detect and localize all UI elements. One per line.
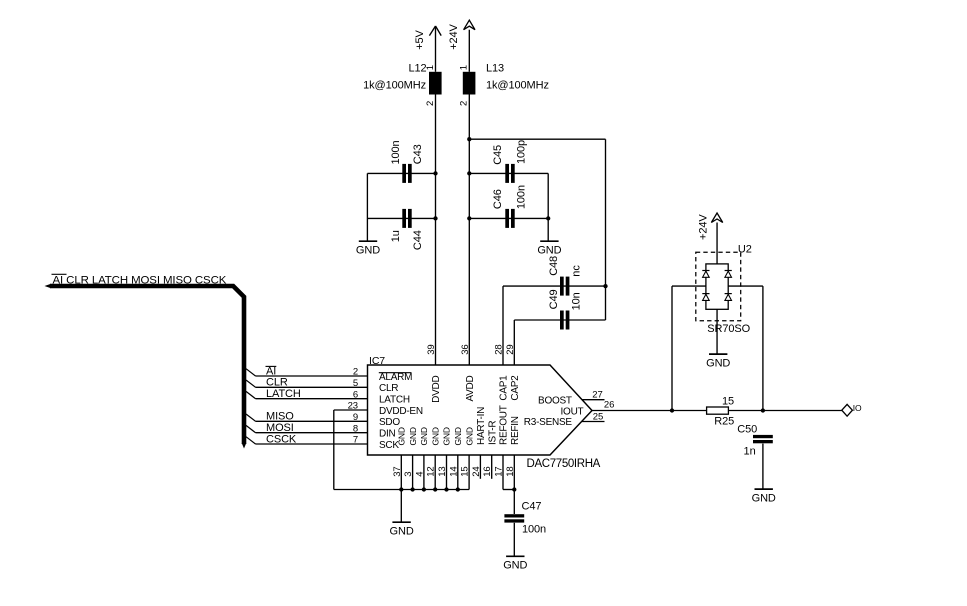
junction C43-DVDD	[433, 171, 437, 175]
pin number 24	[471, 466, 482, 476]
inductor L13	[459, 63, 549, 106]
svg-text:37: 37	[392, 466, 403, 476]
wire right vertical (24V branch down)	[605, 139, 607, 320]
svg-text:16: 16	[482, 466, 493, 476]
svg-text:IO: IO	[853, 403, 862, 413]
wire CAP1 pin 28	[502, 286, 504, 365]
diode array U2 body	[706, 264, 728, 309]
pin number 36	[460, 344, 471, 354]
svg-text:24: 24	[471, 466, 482, 476]
svg-text:BOOST: BOOST	[538, 395, 572, 406]
svg-text:2: 2	[459, 101, 470, 106]
ground GND (C47)	[503, 556, 527, 571]
svg-text:CAP2: CAP2	[510, 375, 521, 401]
ground GND (IC7)	[390, 522, 414, 537]
svg-text:29: 29	[505, 344, 516, 354]
pin name IOUT	[561, 406, 584, 417]
svg-text:28: 28	[494, 344, 505, 354]
svg-text:CAP1: CAP1	[499, 375, 510, 401]
svg-text:1: 1	[425, 65, 436, 70]
pin number 9	[353, 412, 358, 423]
wire IOUT to R25	[592, 410, 707, 412]
svg-text:6: 6	[353, 389, 358, 400]
pin name GND	[419, 427, 429, 445]
wire BOOST pin 27 stub	[582, 399, 604, 401]
wire right gnd column	[547, 173, 549, 241]
pin name GND	[397, 427, 407, 445]
svg-text:GND: GND	[464, 427, 474, 445]
resistor R25	[707, 395, 735, 427]
svg-text:LATCH: LATCH	[379, 395, 410, 406]
svg-text:100p: 100p	[516, 140, 528, 164]
junction gnd bus	[422, 487, 426, 491]
capacitor C43	[390, 140, 424, 182]
wire IC7 pin 12	[434, 455, 436, 490]
pin name REFOUT	[499, 405, 510, 445]
svg-text:3: 3	[403, 472, 414, 477]
pin name R3-SENSE	[524, 417, 573, 428]
svg-text:GND: GND	[453, 427, 463, 445]
junction IOUT-U2 left	[670, 408, 674, 412]
wire +24V top branch	[469, 138, 605, 140]
diode array U2 dashed outline	[696, 243, 752, 335]
bus label	[52, 274, 227, 286]
pin number 29	[505, 344, 516, 354]
svg-text:C49: C49	[548, 290, 560, 310]
pin name REFIN	[510, 416, 521, 445]
svg-text:AI CLR LATCH MOSI MISO CSCK: AI CLR LATCH MOSI MISO CSCK	[53, 274, 227, 286]
wire IC7 pin 4	[423, 455, 425, 490]
svg-text:SR70SO: SR70SO	[707, 323, 750, 335]
svg-text:7: 7	[353, 435, 358, 446]
bus entry CLR	[246, 380, 256, 387]
svg-text:C46: C46	[492, 189, 504, 209]
svg-text:GND: GND	[408, 427, 418, 445]
svg-text:R25: R25	[714, 416, 734, 428]
svg-text:L13: L13	[486, 63, 504, 75]
svg-text:DAC7750IRHA: DAC7750IRHA	[527, 458, 601, 470]
junction C44-DVDD	[433, 216, 437, 220]
svg-text:100n: 100n	[390, 140, 402, 164]
svg-text:REFOUT: REFOUT	[499, 405, 510, 445]
wire C50 to gnd	[762, 444, 764, 490]
svg-text:1k@100MHz: 1k@100MHz	[363, 80, 426, 92]
svg-text:HART-IN: HART-IN	[476, 407, 487, 445]
pin number 26	[604, 400, 614, 411]
junction C46-gnd	[546, 216, 550, 220]
ground GND (C43 C44)	[356, 241, 380, 256]
wire DVDD-EN pin 23 horizontal	[334, 409, 368, 411]
pin number 14	[448, 466, 459, 476]
wire C48 row	[503, 285, 606, 287]
diode D4 (U2 lower-right)	[725, 294, 732, 301]
svg-text:U2: U2	[738, 243, 752, 255]
pin name HART-IN	[476, 407, 487, 445]
bus entry MISO	[246, 414, 256, 421]
pin number 15	[460, 466, 471, 476]
svg-text:GND: GND	[752, 493, 776, 505]
svg-text:GND: GND	[537, 245, 561, 257]
pin number 6	[353, 389, 358, 400]
junction C48 right	[603, 284, 607, 288]
junction gnd bus	[399, 487, 403, 491]
svg-text:10n: 10n	[571, 292, 583, 310]
svg-text:15: 15	[460, 466, 471, 476]
pin number 37	[392, 466, 403, 476]
pin name ALARM	[379, 372, 412, 383]
wire U2 left tap	[672, 286, 706, 410]
svg-text:MOSI: MOSI	[266, 422, 294, 434]
pin name DIN	[379, 429, 396, 440]
op-amp IC7 outline	[368, 355, 593, 455]
pin number 12	[426, 466, 437, 476]
capacitor C48	[548, 256, 583, 296]
svg-text:1u: 1u	[390, 230, 402, 242]
svg-text:DVDD-EN: DVDD-EN	[379, 406, 423, 417]
svg-text:26: 26	[604, 400, 614, 411]
ground GND (C45 C46)	[537, 241, 561, 256]
bus entry CSCK	[246, 437, 256, 444]
bus entry LATCH	[246, 391, 256, 398]
wire IC7 pin 16 stub	[491, 455, 493, 479]
diode D2 (U2 upper-right)	[725, 271, 732, 278]
net label MOSI	[266, 422, 294, 434]
svg-text:AI: AI	[266, 365, 276, 377]
wire CSCK to IC7	[256, 443, 368, 445]
svg-text:nc: nc	[571, 265, 583, 277]
svg-text:L12: L12	[408, 63, 426, 75]
wire C43 row	[367, 172, 435, 174]
svg-text:5: 5	[353, 378, 358, 389]
pin name GND	[442, 427, 452, 445]
junction gnd bus	[456, 487, 460, 491]
capacitor C45	[492, 140, 528, 183]
pin number 16	[482, 466, 493, 476]
wire +24V to U2	[716, 223, 718, 264]
pin number 13	[437, 466, 448, 476]
svg-text:+24V: +24V	[448, 23, 460, 49]
bus entry MOSI	[246, 425, 256, 432]
wire C49 row	[514, 319, 605, 321]
wire U2 to gnd	[716, 309, 718, 354]
svg-text:R3-SENSE: R3-SENSE	[524, 417, 573, 428]
wire DVDD-EN pin 23 vertical	[333, 410, 335, 490]
wire U2 right tap	[728, 286, 763, 410]
net label LATCH	[266, 388, 301, 400]
svg-text:18: 18	[505, 466, 516, 476]
wire R3-SENSE pin 25 stub	[582, 421, 605, 423]
net label CLR	[266, 377, 288, 389]
svg-text:GND: GND	[706, 358, 730, 370]
ground GND (U2)	[706, 354, 730, 369]
wire R25 to IO	[728, 410, 841, 412]
pin name DVDD	[431, 375, 442, 402]
svg-text:1: 1	[459, 65, 470, 70]
wire IC7 pin 37	[400, 455, 402, 490]
svg-text:IOUT: IOUT	[561, 406, 584, 417]
bus entry AI	[246, 369, 256, 376]
wire AI to IC7	[256, 375, 368, 377]
svg-text:IST-R: IST-R	[487, 421, 498, 445]
wire gnd drop	[400, 490, 402, 523]
wire C47 to gnd	[513, 523, 515, 557]
wire CAP2 pin 29	[513, 320, 515, 365]
power +24V symbol	[448, 20, 475, 50]
pin number 2	[353, 367, 358, 378]
svg-text:IC7: IC7	[369, 355, 385, 367]
svg-text:13: 13	[437, 466, 448, 476]
svg-text:ALARM: ALARM	[379, 372, 412, 383]
wire L13 to AVDD pin 36	[468, 95, 470, 366]
svg-text:CLR: CLR	[379, 383, 398, 394]
wire IC7 pin 14	[457, 455, 459, 490]
svg-text:DVDD: DVDD	[431, 375, 442, 402]
diode D3 (U2 lower-left)	[702, 294, 709, 301]
net label AI	[266, 365, 277, 377]
svg-text:1n: 1n	[744, 446, 756, 458]
svg-text:GND: GND	[503, 560, 527, 572]
wire MOSI to IC7	[256, 432, 368, 434]
junction REFIN	[512, 487, 516, 491]
wire CLR to IC7	[256, 386, 368, 388]
wire L12 to DVDD pin 39	[435, 95, 437, 366]
pin name BOOST	[538, 395, 572, 406]
svg-text:GND: GND	[390, 526, 414, 538]
wire IC7 pin 18	[513, 455, 515, 490]
wire +24V to L13 pin 1	[468, 30, 470, 72]
wire C45 row	[469, 172, 548, 174]
svg-text:GND: GND	[397, 427, 407, 445]
svg-text:2: 2	[353, 367, 358, 378]
svg-text:C47: C47	[522, 500, 542, 512]
svg-text:12: 12	[426, 466, 437, 476]
svg-text:8: 8	[353, 423, 358, 434]
svg-text:C45: C45	[492, 145, 504, 165]
junction gnd bus	[433, 487, 437, 491]
pin number 3	[403, 472, 414, 477]
wire gnd bus	[334, 489, 469, 491]
pin name DVDD-EN	[379, 406, 423, 417]
svg-text:GND: GND	[442, 427, 452, 445]
svg-text:39: 39	[426, 344, 437, 354]
svg-text:DIN: DIN	[379, 429, 396, 440]
node IO	[842, 403, 862, 416]
svg-text:+24V: +24V	[698, 214, 710, 240]
svg-text:AVDD: AVDD	[465, 375, 476, 401]
junction R25-C50	[761, 408, 765, 412]
svg-text:GND: GND	[419, 427, 429, 445]
svg-text:CLR: CLR	[266, 377, 288, 389]
pin name CAP2	[510, 375, 521, 401]
pin number 4	[414, 472, 425, 477]
pin number 28	[494, 344, 505, 354]
capacitor C49	[548, 290, 583, 330]
bus AI CLR LATCH MOSI MISO CSCK	[45, 284, 247, 449]
pin name LATCH	[379, 395, 410, 406]
inductor L12	[363, 63, 441, 106]
svg-text:36: 36	[460, 344, 471, 354]
svg-text:2: 2	[425, 101, 436, 106]
svg-text:MISO: MISO	[266, 411, 294, 423]
wire IC7 pin 24 stub	[479, 455, 481, 479]
wire LATCH to IC7	[256, 398, 368, 400]
pin name GND	[453, 427, 463, 445]
svg-text:C50: C50	[737, 423, 757, 435]
pin name GND	[464, 427, 474, 445]
svg-text:CSCK: CSCK	[266, 433, 297, 445]
junction C45-AVDD	[467, 171, 471, 175]
power +24V symbol (U2)	[698, 213, 723, 240]
ground GND (C50)	[752, 489, 776, 504]
svg-text:100n: 100n	[522, 523, 546, 535]
svg-text:GND: GND	[356, 245, 380, 257]
pin name GND	[408, 427, 418, 445]
svg-text:+5V: +5V	[414, 29, 426, 49]
net label CSCK	[266, 433, 297, 445]
pin number 7	[353, 435, 358, 446]
svg-text:27: 27	[592, 389, 602, 400]
svg-text:REFIN: REFIN	[510, 416, 521, 445]
svg-text:1k@100MHz: 1k@100MHz	[486, 80, 549, 92]
svg-text:25: 25	[593, 411, 603, 422]
pin number 27	[592, 389, 602, 400]
svg-text:SDO: SDO	[379, 417, 400, 428]
pin name SCK	[379, 440, 399, 451]
diode D1 (U2 upper-left)	[702, 271, 709, 278]
pin number 25	[593, 411, 603, 422]
junction gnd bus	[444, 487, 448, 491]
label DAC7750IRHA	[527, 458, 601, 470]
wire left gnd column	[366, 173, 368, 241]
svg-text:100n: 100n	[516, 185, 528, 209]
svg-text:C48: C48	[548, 256, 560, 276]
pin number 5	[353, 378, 358, 389]
svg-text:9: 9	[353, 412, 358, 423]
pin number 39	[426, 344, 437, 354]
capacitor C44	[390, 209, 424, 250]
capacitor C50	[737, 423, 772, 457]
wire MISO to IC7	[256, 420, 368, 422]
svg-text:4: 4	[414, 472, 425, 477]
wire IC7 pin 3	[412, 455, 414, 490]
svg-text:C44: C44	[412, 230, 424, 250]
pin number 23	[348, 401, 358, 412]
pin name GND	[430, 427, 440, 445]
pin number 17	[494, 466, 505, 476]
wire REFIN to C47	[513, 490, 515, 515]
junction gnd bus	[410, 487, 414, 491]
svg-text:C43: C43	[412, 144, 424, 164]
junction +24V branch	[467, 137, 471, 141]
pin name AVDD	[465, 375, 476, 401]
wire C44 row	[367, 217, 435, 219]
pin name IST-R	[487, 421, 498, 445]
capacitor C47	[504, 500, 546, 535]
svg-text:14: 14	[448, 466, 459, 476]
svg-text:15: 15	[722, 395, 734, 407]
svg-text:LATCH: LATCH	[266, 388, 301, 400]
wire C46 row	[469, 217, 548, 219]
junction C46-AVDD	[467, 216, 471, 220]
svg-text:17: 17	[494, 466, 505, 476]
pin name CLR	[379, 383, 398, 394]
pin name CAP1	[499, 375, 510, 401]
pin number 18	[505, 466, 516, 476]
svg-text:GND: GND	[430, 427, 440, 445]
wire IC7 pin 17	[503, 455, 514, 490]
wire IC7 pin 15	[468, 455, 470, 490]
wire IC7 pin 13	[446, 455, 448, 490]
net label MISO	[266, 411, 294, 423]
power +5V symbol	[414, 26, 441, 50]
pin number 8	[353, 423, 358, 434]
capacitor C46	[492, 185, 528, 228]
wire +5V to L12 pin 1	[435, 26, 437, 72]
pin name SDO	[379, 417, 400, 428]
